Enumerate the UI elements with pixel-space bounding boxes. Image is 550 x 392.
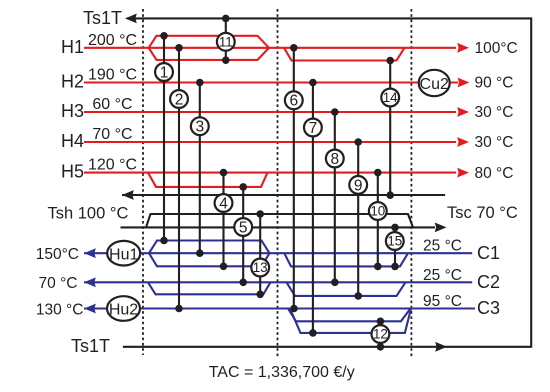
heater Hu1	[107, 241, 140, 266]
exchanger circle 4	[215, 194, 233, 212]
exchanger line 13	[259, 214, 261, 294]
cooler Cu2	[419, 70, 450, 96]
exchanger line 11	[225, 18, 227, 60]
svg-text:70 °C: 70 °C	[92, 126, 132, 143]
exchanger line 15	[394, 227, 396, 266]
svg-text:7: 7	[309, 120, 318, 137]
svg-text:Hu1: Hu1	[109, 246, 138, 263]
dot 10 bottom on C1 lower branch	[374, 263, 382, 271]
svg-text:25 °C: 25 °C	[423, 267, 462, 284]
arrow Ts1T top left	[125, 14, 137, 24]
svg-text:Tsc 70 °C: Tsc 70 °C	[447, 204, 518, 222]
exchanger line 4	[222, 173, 224, 267]
svg-text:10: 10	[370, 204, 385, 219]
dot 4 bottom on C1 lower branch	[220, 263, 228, 271]
exchanger circle 11	[217, 33, 235, 51]
exchanger line 9	[357, 142, 359, 296]
dot 9 top on H4	[354, 138, 362, 146]
exchanger circle 7	[304, 119, 322, 137]
svg-text:2: 2	[175, 91, 184, 108]
dot 6 top on H1 main	[290, 44, 298, 52]
dot 15 bottom on C1 lower branch	[391, 263, 399, 271]
stream C3	[84, 309, 475, 333]
exchanger line 3	[199, 83, 201, 254]
dot 3 bottom on C1 main	[196, 249, 204, 257]
svg-text:9: 9	[354, 177, 363, 194]
dot 1 top on H1 upper branch	[160, 32, 168, 40]
svg-text:60 °C: 60 °C	[92, 96, 132, 113]
stream H3	[84, 111, 456, 113]
svg-text:90 °C: 90 °C	[475, 75, 514, 92]
dot 12 bottom on Ts1T return	[377, 343, 385, 351]
exchanger line 12	[379, 321, 381, 347]
dot 4 top on H5	[220, 169, 228, 177]
dot 7 bottom on C3 branch 2	[309, 329, 317, 337]
dot 13 bottom on C2 lower branch	[256, 291, 264, 299]
exchanger line 14	[389, 61, 391, 196]
svg-text:4: 4	[219, 195, 228, 212]
dot 13 top on Tsc upper branch	[256, 210, 264, 218]
svg-text:130 °C: 130 °C	[36, 302, 84, 319]
exchanger circle 8	[326, 150, 344, 168]
dot 3 top on H2	[196, 79, 204, 87]
heater Hu2	[107, 296, 140, 321]
dot 5 top on H5 lower branch	[239, 183, 247, 191]
arrow H5 out	[457, 168, 469, 178]
svg-text:1: 1	[160, 64, 169, 81]
dot 1 bottom on C1 upper branch	[160, 237, 168, 245]
svg-text:TAC = 1,336,700 €/y: TAC = 1,336,700 €/y	[209, 364, 355, 381]
svg-text:H1: H1	[61, 37, 84, 57]
svg-text:80 °C: 80 °C	[475, 165, 514, 182]
svg-text:6: 6	[289, 93, 298, 110]
svg-text:Hu2: Hu2	[109, 302, 138, 319]
exchanger line 1	[163, 36, 165, 241]
svg-text:3: 3	[195, 119, 204, 136]
svg-text:95 °C: 95 °C	[423, 293, 462, 310]
svg-text:30 °C: 30 °C	[475, 134, 514, 151]
exchanger line 6	[293, 48, 295, 309]
svg-text:120 °C: 120 °C	[88, 157, 137, 174]
svg-text:100°C: 100°C	[475, 40, 518, 57]
svg-text:14: 14	[383, 90, 398, 105]
arrow Ts1T bottom mid	[435, 342, 447, 352]
svg-text:Cu2: Cu2	[420, 76, 449, 93]
svg-text:H5: H5	[61, 162, 84, 182]
stream H5	[84, 173, 456, 187]
exchanger line 5	[242, 187, 244, 282]
svg-text:H2: H2	[61, 72, 84, 92]
arrow C3 out	[84, 304, 96, 314]
arrow C2 out	[84, 277, 96, 287]
dot 11 top on Ts1T	[222, 15, 230, 23]
svg-text:C1: C1	[477, 243, 500, 263]
exchanger circle 13	[251, 259, 269, 277]
exchanger circle 6	[285, 91, 303, 109]
arrow H1 out	[457, 43, 469, 53]
exchanger circle 14	[381, 89, 399, 107]
dot 8 top on H3	[331, 108, 339, 116]
exchanger circle 9	[349, 176, 367, 194]
svg-text:200 °C: 200 °C	[88, 32, 137, 49]
arrow Tsc right	[435, 223, 447, 233]
svg-text:H4: H4	[61, 131, 84, 151]
dashed boundary line 1	[142, 9, 144, 355]
svg-text:C3: C3	[477, 298, 500, 318]
dot 11 bottom on H1 lower branch	[222, 56, 230, 64]
exchanger circle 12	[372, 325, 390, 343]
stream C1	[84, 241, 472, 267]
svg-text:30 °C: 30 °C	[475, 104, 514, 121]
exchanger circle 10	[369, 202, 387, 220]
dot 8 bottom on C2 main	[331, 279, 339, 287]
svg-text:150°C: 150°C	[36, 246, 79, 263]
exchanger circle 5	[234, 218, 252, 236]
exchanger line 10	[377, 173, 379, 267]
exchanger circle 1	[155, 63, 173, 81]
stream H2	[84, 81, 458, 83]
svg-text:190 °C: 190 °C	[88, 67, 137, 84]
arrow H3 out	[457, 107, 469, 117]
arrow Tsh left	[122, 190, 134, 200]
dot 5 bottom on C2 main	[239, 279, 247, 287]
arrow H2 out	[458, 78, 470, 88]
dot 14 top on H1 lower branch	[386, 57, 394, 65]
arrow H4 out	[457, 137, 469, 147]
stream C2	[84, 282, 472, 296]
svg-text:H3: H3	[61, 101, 84, 121]
exchanger line 7	[312, 83, 314, 333]
dot 6 bottom on C3	[290, 305, 298, 313]
svg-text:12: 12	[373, 327, 388, 342]
dot 12 top on C3 branch 1	[377, 318, 385, 326]
dashed boundary line 2	[277, 9, 279, 357]
exchanger circle 3	[191, 117, 209, 135]
exchanger circle 15	[386, 232, 404, 250]
svg-text:15: 15	[387, 234, 402, 249]
exchanger line 2	[178, 48, 180, 309]
arrow C1 out	[84, 248, 96, 258]
exchanger line 8	[334, 112, 336, 282]
svg-text:13: 13	[253, 260, 268, 275]
stream Tsh	[122, 194, 445, 196]
stream H1	[84, 36, 456, 61]
dashed boundary line 3	[410, 9, 412, 357]
svg-text:Ts1T: Ts1T	[83, 8, 122, 28]
dot 2 top on H1 main	[175, 44, 183, 52]
dot 9 bottom on C2 lower branch	[354, 292, 362, 300]
svg-text:11: 11	[219, 35, 233, 50]
dot 2 bottom on C3	[175, 305, 183, 313]
dot 14 bottom on Tsh	[386, 191, 394, 199]
svg-text:8: 8	[330, 151, 339, 168]
stream Ts1T loop	[123, 18, 531, 346]
dot 7 top on H2	[309, 79, 317, 87]
dot 10 top on H5	[374, 169, 382, 177]
exchanger circle 2	[170, 90, 188, 108]
dot 15 top on Tsc lower branch	[391, 224, 399, 232]
svg-text:Ts1T: Ts1T	[71, 336, 110, 356]
svg-text:C2: C2	[477, 272, 500, 292]
stream Tsc	[121, 214, 436, 227]
svg-text:Tsh 100 °C: Tsh 100 °C	[48, 205, 129, 223]
stream H4	[84, 141, 456, 143]
svg-text:25 °C: 25 °C	[423, 238, 462, 255]
svg-text:5: 5	[239, 219, 248, 236]
svg-text:70 °C: 70 °C	[39, 275, 78, 292]
